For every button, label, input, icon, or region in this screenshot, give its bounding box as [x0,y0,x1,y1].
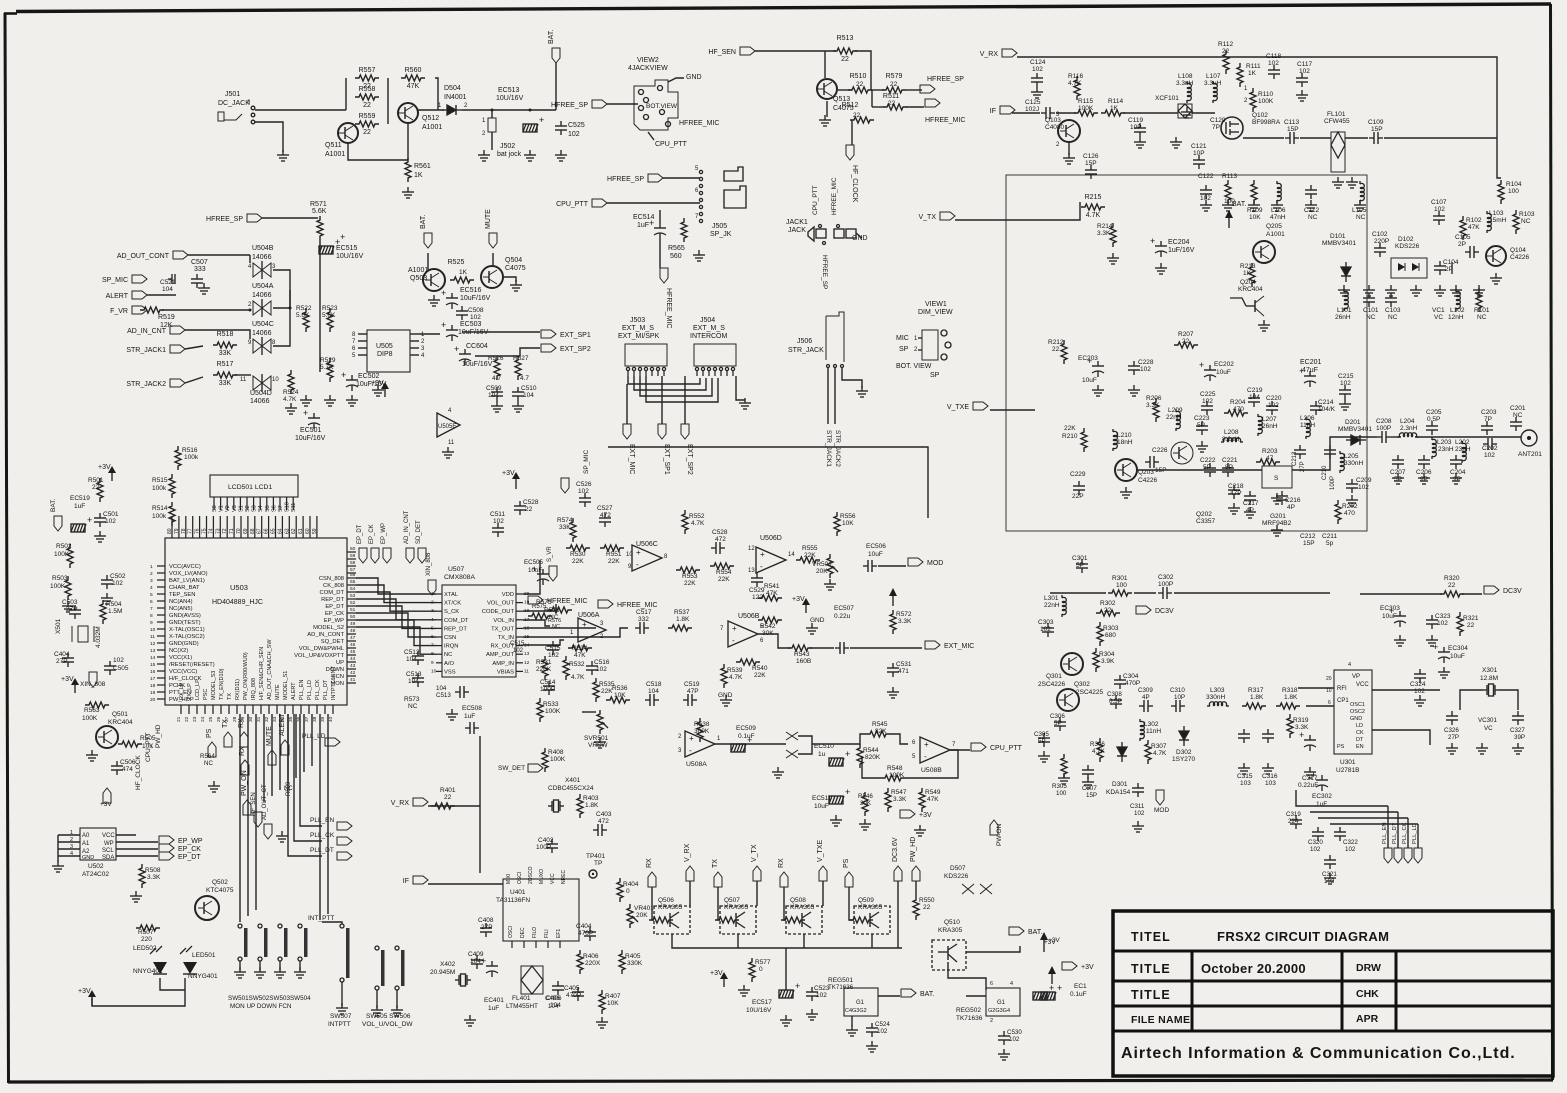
svg-text:C501: C501 [103,511,119,518]
wire bat Q503 [427,253,429,270]
svg-text:100P: 100P [1158,581,1173,588]
net EXT_MIC j [623,424,635,474]
svg-text:22: 22 [1104,607,1112,614]
svg-text:C502: C502 [110,573,126,580]
svg-text:22: 22 [890,81,898,88]
svg-text:EC1: EC1 [1074,983,1087,990]
net BAT. x [1009,927,1042,936]
svg-text:EC303: EC303 [1380,605,1400,612]
net MOD o [908,558,943,567]
+3V x arrow [1040,932,1048,940]
capacitor C219 [1248,393,1260,407]
capacitor C117 [1296,73,1308,87]
svg-text:50: 50 [350,614,356,620]
svg-text:R524: R524 [283,389,299,396]
svg-text:INTPTT&ENT: INTPTT&ENT [331,665,337,700]
svg-text:C303: C303 [1038,619,1054,626]
jack J505 symbol [724,167,743,181]
capacitor C225 [1201,401,1213,415]
svg-text:9P: 9P [1453,476,1461,483]
svg-text:D504: D504 [444,85,461,92]
resistor R408 [542,748,548,772]
connector VIEW2 outline [634,80,678,130]
svg-text:+: + [303,408,308,418]
svg-text:PLL_EN: PLL_EN [299,679,305,700]
svg-text:0: 0 [759,966,763,973]
svg-text:V_RX: V_RX [391,800,410,807]
LCD bus vertical wires [172,516,317,538]
net V_RX u [391,798,428,807]
ground o2 [720,695,732,706]
svg-text:102: 102 [1140,366,1151,373]
svg-text:R406: R406 [583,953,599,960]
svg-text:22: 22 [363,102,371,109]
svg-text:R555: R555 [802,545,818,552]
net HF_CLOCK c [846,145,858,203]
LED pair LED502 [153,962,167,974]
svg-text:PLL_EN: PLL_EN [1382,822,1388,844]
svg-text:104: 104 [406,656,417,663]
analog switch U504B [252,245,274,279]
svg-text:VIEW2: VIEW2 [637,57,659,64]
grounds under resistor group [300,395,312,406]
capacitor EC506 sym [863,560,877,572]
svg-text:R215: R215 [1085,194,1102,201]
svg-text:U506B: U506B [738,613,760,620]
svg-text:SW505 SW506: SW505 SW506 [366,1013,411,1020]
resistor R116 [1074,76,1080,100]
svg-text:MODEL_S2: MODEL_S2 [313,625,344,631]
svg-text:S10: S10 [285,502,291,512]
svg-text:470P: 470P [1125,680,1140,687]
svg-text:HFREE_MIC: HFREE_MIC [665,288,672,328]
main RX chain wire [1243,137,1284,139]
svg-text:VDD: VDD [502,592,514,598]
wire u502 left common [57,835,59,862]
svg-text:63: 63 [284,528,290,534]
J506 pins [827,365,830,368]
svg-text:C204: C204 [1450,469,1466,476]
switch SW504 [298,924,302,928]
bus wires U503-U507 [356,578,436,594]
svg-text:104: 104 [523,392,534,399]
svg-text:160B: 160B [796,658,811,665]
resistor R320 [1440,591,1464,597]
connector J505 pins [695,166,703,223]
capacitor EC510 sym [829,749,850,766]
svg-text:FILI: FILI [544,929,550,938]
capacitor C204 [1450,455,1462,469]
svg-text:UP: UP [336,660,344,666]
wire dc3v right [1360,593,1442,595]
svg-text:R556: R556 [840,513,856,520]
wire D504 to BAT node [462,109,556,111]
svg-text:CODE_OUT: CODE_OUT [482,609,515,615]
svg-text:0.1uF: 0.1uF [1070,991,1087,998]
svg-text:EP_WP: EP_WP [324,618,344,624]
transistor Q510 [932,940,966,970]
svg-text:15P: 15P [1303,540,1315,547]
svg-text:G201: G201 [1270,513,1286,520]
svg-text:102: 102 [1310,846,1321,853]
svg-text:1K: 1K [459,269,468,276]
resistor R113 [1225,180,1231,204]
capacitor EC303 [1389,606,1406,627]
svg-text:SP_JK: SP_JK [710,231,732,238]
svg-text:REP_DT: REP_DT [321,597,344,603]
svg-text:EC201: EC201 [1300,359,1322,366]
svg-text:102: 102 [1009,1036,1020,1043]
resistor R307 [1145,740,1151,764]
resistor R103 [1513,210,1519,234]
inductor L105 [1360,181,1364,203]
svg-text:1.8K: 1.8K [585,802,599,809]
svg-text:KDS226: KDS226 [944,873,969,880]
capacitor C109 [1369,132,1383,144]
resistor R556 [834,512,840,536]
svg-text:+: + [760,550,765,559]
net HF_SEN w [254,812,262,827]
svg-text:C104: C104 [1443,259,1459,266]
svg-text:GND(TEST): GND(TEST) [169,620,201,626]
svg-text:47K: 47K [574,652,586,659]
svg-text:U504D: U504D [250,390,272,397]
capacitor C226 [1145,456,1159,468]
capacitor C521 [168,278,172,280]
wire gnd jack1 [856,233,862,238]
net EP_CK s [371,548,379,563]
svg-text:C505: C505 [113,665,129,672]
svg-text:NC: NC [552,624,560,630]
svg-text:SCL: SCL [102,848,114,854]
svg-text:STR_JACK1: STR_JACK1 [825,430,832,467]
svg-text:C525: C525 [568,122,585,129]
svg-text:R541: R541 [764,583,780,590]
net HFREE_SP c [920,85,935,93]
potentiometer SVR501 [597,710,608,734]
ground EC203 [1092,385,1104,396]
svg-text:EP_WP: EP_WP [381,523,387,544]
wire R513 to corner [855,51,871,90]
capacitor C321 [1324,855,1336,869]
svg-text:CPU_PTT: CPU_PTT [655,141,688,148]
svg-text:5: 5 [431,625,434,631]
svg-text:DEC: DEC [520,927,526,938]
svg-text:10uF: 10uF [1082,377,1097,384]
svg-text:C102: C102 [1372,231,1388,238]
capacitor C528t [514,501,526,515]
svg-text:MMBV3401: MMBV3401 [1322,240,1356,247]
svg-text:4: 4 [150,585,153,591]
net EXT_MIC o [925,641,974,650]
svg-text:+: + [689,734,694,743]
svg-text:23: 23 [192,716,198,722]
net +3V v [900,810,932,819]
capacitor C320 [1312,827,1324,841]
connector J504 [694,344,736,366]
svg-text:C113: C113 [1284,119,1299,126]
power +3V i [371,380,389,397]
svg-text:EC203: EC203 [1078,355,1098,362]
svg-text:C408: C408 [478,917,494,924]
svg-text:SP: SP [899,346,909,353]
svg-text:DC3.6V: DC3.6V [892,837,899,862]
J504 pins [695,367,734,376]
transistor Q511 [325,123,358,158]
resistor R535 [593,678,599,702]
svg-text:62: 62 [291,528,297,534]
net PW_HD x [910,837,920,881]
svg-text:67: 67 [257,528,263,534]
svg-text:9: 9 [150,620,153,626]
svg-text:10: 10 [272,377,279,383]
svg-text:102: 102 [596,666,607,673]
svg-text:MMBV3401: MMBV3401 [1338,426,1372,433]
svg-text:R538: R538 [694,721,710,728]
capacitor C107 [1433,211,1445,225]
svg-text:Q204: Q204 [1240,279,1256,286]
svg-text:1.5M: 1.5M [108,608,122,615]
capacitor C202 [1483,438,1497,450]
capacitor C405 [572,987,584,1001]
svg-text:U506C: U506C [636,541,658,548]
svg-text:R571: R571 [310,201,327,208]
capacitor C203 [1481,421,1493,435]
svg-text:R204: R204 [1230,399,1246,406]
net MUTE flag i [489,233,497,248]
svg-text:R574: R574 [557,517,573,524]
resistor R101 [1476,288,1482,312]
svg-text:100K: 100K [1258,98,1274,105]
svg-text:EP_DT: EP_DT [325,604,344,610]
resistor R114 [1101,110,1125,116]
svg-text:R513: R513 [837,35,854,42]
svg-text:V1: V1 [219,505,225,512]
svg-text:R306: R306 [1090,741,1105,748]
svg-text:4: 4 [70,851,73,857]
capacitor EC509 sym [731,735,752,752]
svg-text:R557: R557 [359,67,376,74]
svg-text:D101: D101 [1330,233,1346,240]
svg-text:R565: R565 [668,245,685,252]
wires u301 left [1306,705,1334,707]
svg-text:C515: C515 [510,641,525,647]
svg-text:4.7K: 4.7K [283,396,297,403]
svg-text:0.22u: 0.22u [834,613,851,620]
capacitor C403 [593,824,607,836]
capacitor C506 [111,761,123,775]
svg-text:R559: R559 [359,113,376,120]
svg-text:GND: GND [1350,716,1362,722]
ground C530 [998,1049,1010,1060]
box outline around U401 area [479,736,481,873]
wire u504 bus verticals [273,290,290,346]
svg-text:MOD: MOD [927,560,943,567]
svg-text:RX: RX [238,718,245,728]
svg-text:R320: R320 [1444,575,1460,582]
svg-text:EP_DT: EP_DT [178,854,201,861]
resistor R511 [883,93,907,110]
svg-text:22: 22 [853,112,861,119]
svg-text:R515: R515 [152,477,168,484]
capacitor C222 [1204,463,1216,477]
svg-text:MUTE: MUTE [275,684,281,700]
capacitor EC507 sym [835,642,849,654]
D102 internal diodes [1398,263,1405,271]
svg-text:U2781B: U2781B [1336,767,1360,774]
svg-text:L207: L207 [1262,416,1277,423]
svg-text:52: 52 [350,600,356,606]
svg-text:59: 59 [350,553,356,559]
U503 bottom pin labels rotated [176,639,337,722]
svg-text:474: 474 [122,766,133,773]
resistor R555 [796,557,820,563]
svg-text:R321: R321 [1463,615,1479,622]
svg-text:470: 470 [1344,510,1355,517]
svg-text:LCD_LP: LCD_LP [195,679,201,700]
svg-text:2OSCO: 2OSCO [528,866,534,884]
svg-text:65: 65 [271,528,277,534]
diode D101 [1341,262,1351,282]
net CPU_PTT v [971,743,1023,752]
svg-text:/RESET(/RESET): /RESET(/RESET) [169,662,215,668]
capacitor C121 [1193,155,1205,169]
svg-text:U503: U503 [230,583,248,592]
resistor R401 [431,803,455,809]
svg-text:G1: G1 [856,1000,865,1006]
svg-text:11: 11 [240,377,247,383]
resistor R102 [1460,216,1466,240]
svg-text:MUXO: MUXO [539,869,545,884]
ground R508 [130,891,142,902]
svg-text:S_VR: S_VR [547,546,553,562]
svg-text:+: + [1150,236,1155,246]
svg-text:U504C: U504C [252,321,274,328]
svg-text:ALERT: ALERT [106,293,129,300]
svg-text:HFREE_MIC: HFREE_MIC [617,602,657,609]
svg-text:C120: C120 [1210,117,1226,124]
J503/J504 harness wires [628,376,700,384]
resistor R536 [606,697,630,703]
capacitor C505 [104,661,116,675]
svg-text:R547: R547 [891,789,907,796]
svg-text:71: 71 [229,528,235,534]
inductor L303 [1207,702,1229,706]
capacitor C523 [806,987,818,1001]
svg-text:100P: 100P [1376,425,1391,432]
svg-text:104: 104 [1249,394,1260,401]
svg-text:44: 44 [350,656,356,662]
svg-text:R564: R564 [200,753,215,760]
svg-text:330nH: 330nH [1344,460,1363,467]
svg-text:10: 10 [150,627,156,633]
svg-text:Q504: Q504 [505,257,522,264]
svg-text:330K: 330K [627,960,643,967]
resistor R519 [140,307,164,313]
capacitor C408 [480,923,492,937]
LCD pin labels [212,502,297,512]
transistor Q203 [1115,459,1137,481]
svg-text:19: 19 [150,690,156,696]
svg-text:C308: C308 [1107,691,1122,698]
svg-text:BAT.: BAT. [1232,201,1246,208]
svg-text:R110: R110 [1258,91,1273,98]
net SD_DET s [418,548,426,563]
svg-text:22: 22 [92,484,100,491]
svg-text:CC604: CC604 [466,343,488,350]
svg-text:32: 32 [264,716,270,722]
svg-text:102: 102 [112,580,123,587]
svg-text:C518: C518 [646,681,662,688]
svg-text:100: 100 [1508,188,1519,195]
net IF k [990,106,1015,115]
wire Q512 emitter to R561 [407,123,409,160]
net XIN_808 p [89,672,97,687]
svg-text:102: 102 [578,488,589,495]
svg-text:102: 102 [877,1028,888,1035]
resistor R104 [1498,180,1504,204]
svg-text:J501: J501 [225,91,240,98]
svg-text:470P: 470P [578,930,593,937]
junction dots u504 [249,309,252,312]
svg-text:100P: 100P [536,844,551,851]
wire stems under array flags [652,887,654,920]
capacitor EC201 [1299,366,1316,387]
svg-text:3: 3 [431,608,434,614]
capacitor C509 [491,387,503,401]
svg-text:102: 102 [493,518,504,525]
svg-text:TITLE: TITLE [1131,962,1171,976]
svg-text:R536: R536 [612,685,628,692]
capacitor EC516 [441,288,458,309]
filter XCF101 [1178,104,1192,118]
svg-text:100K: 100K [54,551,70,558]
grounds varactor row [1338,285,1350,296]
svg-text:22nH: 22nH [1044,602,1060,609]
svg-text:C3357: C3357 [1196,518,1216,525]
wires LED [92,978,185,1006]
transistor Q205 [1253,241,1275,263]
svg-text:10P: 10P [1193,150,1205,157]
border frame top [16,4,1551,12]
svg-text:DC3V: DC3V [1503,588,1522,595]
inductor L107 [1213,81,1217,103]
title block column line 2 [1341,951,1344,1031]
svg-text:1uF/16V: 1uF/16V [1168,247,1195,254]
capacitor C501 [94,513,106,527]
svg-text:Q512: Q512 [422,115,439,122]
svg-text:MODEL_S1: MODEL_S1 [283,671,289,700]
svg-text:R101: R101 [1474,307,1490,314]
svg-text:33K: 33K [219,350,232,357]
svg-text:FRSX2 CIRCUIT DIAGRAM: FRSX2 CIRCUIT DIAGRAM [1217,929,1389,944]
svg-text:R407: R407 [605,993,621,1000]
svg-text:L208: L208 [1224,429,1239,436]
svg-text:80: 80 [167,528,173,534]
svg-text:19: 19 [524,600,530,606]
svg-text:R579: R579 [886,73,903,80]
wire U506B out [758,634,790,648]
svg-text:C510: C510 [521,385,537,392]
capacitor C104 [1434,261,1446,275]
svg-text:V_RX: V_RX [684,843,691,862]
LED pair LED501 [183,962,197,974]
svg-text:12: 12 [150,641,156,647]
border frame right [1551,4,1553,1080]
svg-text:S2: S2 [245,505,251,512]
svg-text:EC513: EC513 [498,87,520,94]
wire hfree_sp view2 [607,103,638,105]
